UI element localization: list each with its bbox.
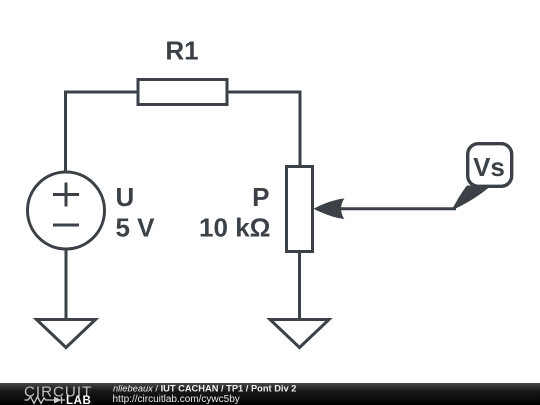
voltage source U minus sign bbox=[53, 224, 79, 227]
wire: potentiometer bottom to ground bbox=[298, 251, 301, 319]
potentiometer P body bbox=[287, 167, 313, 252]
voltage source U body bbox=[28, 172, 105, 249]
svg-text:U: U bbox=[116, 182, 135, 212]
resistor R1 body bbox=[138, 80, 227, 105]
wire: top-right segment R1 to potentiometer top bbox=[226, 92, 300, 167]
wire: node A top-left horizontal segment bbox=[66, 91, 141, 94]
ground left bbox=[37, 320, 96, 348]
wire: left vertical segment to source bbox=[64, 91, 67, 174]
ground right bbox=[270, 320, 329, 348]
svg-text:Vs: Vs bbox=[473, 152, 505, 182]
wire: source bottom to ground bbox=[65, 248, 68, 319]
voltage source U plus sign bbox=[53, 183, 79, 207]
potentiometer wiper arrowhead bbox=[314, 198, 345, 219]
svg-text:R1: R1 bbox=[165, 36, 198, 66]
flag Vs box bbox=[468, 144, 512, 187]
svg-text:10 kΩ: 10 kΩ bbox=[199, 213, 270, 243]
svg-text:http://circuitlab.com/cywc5by: http://circuitlab.com/cywc5by bbox=[113, 394, 240, 405]
wire: wiper arrow shaft bbox=[340, 207, 456, 210]
svg-text:nliebeaux / IUT CACHAN / TP1 /: nliebeaux / IUT CACHAN / TP1 / Pont Div … bbox=[113, 384, 296, 394]
flag Vs callout tail bbox=[452, 186, 492, 211]
CircuitLab logo circuit squiggle (resistor + diode) bbox=[25, 397, 66, 404]
svg-text:P: P bbox=[252, 182, 269, 212]
svg-text:LAB: LAB bbox=[66, 395, 91, 405]
svg-text:5 V: 5 V bbox=[116, 213, 156, 243]
